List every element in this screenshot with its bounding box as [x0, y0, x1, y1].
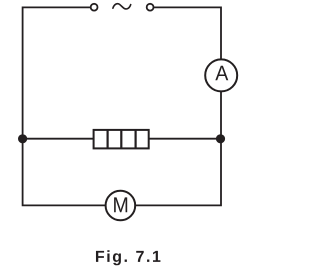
terminal: right supply terminal (open circle)	[147, 4, 154, 11]
ammeter A1 label "A"	[215, 66, 228, 80]
node B: right junction dot	[216, 134, 225, 143]
resistor R1 divider 1	[106, 130, 108, 149]
wire: middle branch from node A to node B	[23, 138, 221, 140]
resistor R1: resistance box body	[94, 130, 149, 149]
node A: left junction dot	[18, 134, 27, 143]
ammeter A1: meter circle	[205, 59, 237, 91]
motor M1 label "M"	[114, 197, 127, 212]
resistor R1 divider 3	[135, 130, 137, 149]
wire: main loop (left, bottom, right sides and top stubs to supply terminals)	[23, 7, 221, 205]
AC source symbol (~)	[113, 4, 131, 9]
motor M1: motor circle	[106, 191, 136, 221]
caption "Fig. 7.1"	[96, 250, 160, 265]
terminal: left supply terminal (open circle)	[91, 4, 98, 11]
resistor R1 divider 2	[120, 130, 122, 149]
